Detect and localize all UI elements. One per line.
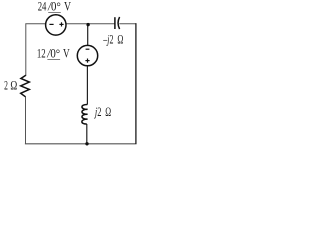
svg-text:–j2: –j2 xyxy=(103,32,114,47)
svg-text:V: V xyxy=(63,45,70,60)
svg-text:V: V xyxy=(64,0,71,13)
svg-text:j2: j2 xyxy=(94,104,102,119)
svg-text:2: 2 xyxy=(4,77,8,92)
svg-text:Ω: Ω xyxy=(105,104,111,119)
svg-text:/0°: /0° xyxy=(47,0,61,13)
svg-text:12: 12 xyxy=(37,45,46,60)
svg-text:Ω: Ω xyxy=(10,77,17,92)
svg-text:Ω: Ω xyxy=(117,32,123,47)
svg-text:24: 24 xyxy=(38,0,47,13)
svg-text:/0°: /0° xyxy=(46,45,60,60)
